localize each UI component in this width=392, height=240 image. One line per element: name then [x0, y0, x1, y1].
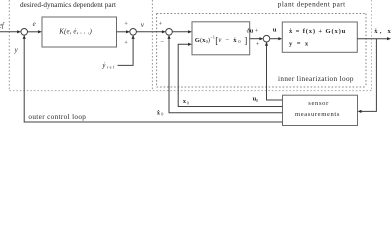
dashed bottom edge (box L + outer light box): [9, 90, 371, 92]
wire: S1 to K block, label e: [27, 31, 39, 33]
block sensor measurements: [283, 95, 358, 125]
svg-text:−: −: [160, 39, 164, 46]
svg-text:ẋ, x: ẋ, x: [374, 28, 391, 35]
svg-text:+: +: [159, 21, 163, 28]
svg-text:outer control loop: outer control loop: [28, 113, 86, 121]
summing junction S3: [166, 29, 173, 36]
wire: ydot_ref into S2 from below: [118, 38, 134, 66]
svg-text:measurements: measurements: [295, 111, 340, 118]
wire: x0 from sensor to G block lower input: [178, 44, 282, 106]
svg-text:plant dependent part: plant dependent part: [278, 0, 345, 8]
wire: S2 to S3, label nu: [136, 31, 163, 33]
wire: y feedback from sensor to S1: [24, 38, 282, 122]
svg-text:δu: δu: [247, 27, 254, 34]
svg-text:+: +: [256, 41, 260, 48]
wire: feedback tap down to sensor box: [361, 39, 377, 112]
svg-text:ẋ = f(x) + G(x)u: ẋ = f(x) + G(x)u: [289, 28, 346, 35]
block plant xdot = f(x)+G(x)u ; y = x: [282, 22, 357, 52]
wire: u0 from sensor to S4: [267, 45, 283, 100]
wire: K to S2: [117, 31, 128, 33]
svg-text:u: u: [273, 27, 277, 34]
svg-text:sensor: sensor: [308, 100, 329, 107]
wire: reference input into S1: [0, 31, 18, 33]
dashed box L (desired-dynamics dependent part) left edge: [8, 0, 10, 91]
svg-text:K(e, ė, . . .): K(e, ė, . . .): [58, 28, 92, 36]
dashed box R top edge: [157, 13, 366, 15]
svg-text:inner linearization loop: inner linearization loop: [278, 75, 354, 83]
svg-text:e: e: [33, 21, 36, 28]
dashed outer light right edge: [371, 0, 373, 91]
dashed box R right edge: [365, 14, 367, 88]
wire: S3 to G block: [172, 31, 189, 33]
wire: plant output with arrow, label xdot, x: [357, 38, 388, 40]
svg-text:G(x: G(x: [195, 37, 206, 44]
wire: xdot0 from sensor to S3: [169, 38, 283, 113]
wire: G to S4, labels du, u: [250, 38, 261, 40]
svg-text:]: ]: [244, 36, 247, 46]
summing junction S2: [130, 29, 137, 36]
svg-text:desired-dynamics dependent par: desired-dynamics dependent part: [20, 1, 116, 9]
svg-text:+: +: [255, 28, 259, 35]
svg-text:y = x: y = x: [289, 40, 309, 47]
summing junction S4: [263, 35, 270, 42]
dashed box R bottom edge: [157, 86, 366, 88]
summing junction S1: [21, 29, 28, 36]
svg-text:−: −: [225, 37, 229, 44]
svg-text:+: +: [124, 40, 128, 47]
block K(e, edot, ...): [42, 17, 117, 47]
block G(x0)^-1 [nu - xdot0]: [192, 22, 250, 55]
dashed box R (plant dependent part) left edge: [156, 14, 158, 88]
wire: S4 to plant block: [270, 38, 280, 40]
svg-text:+: +: [124, 21, 128, 28]
dashed box L right edge / inner loop dashed left edge: [151, 0, 153, 91]
